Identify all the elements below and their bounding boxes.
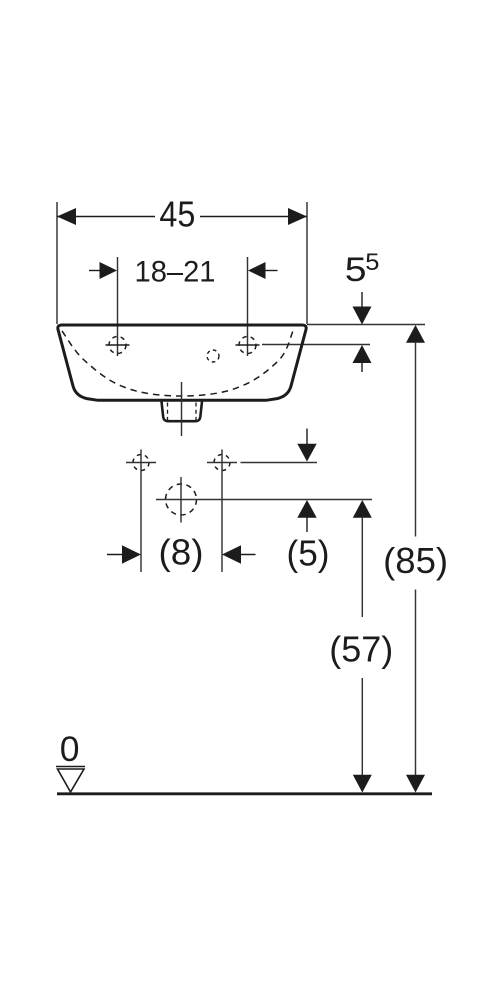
- dim 45 arrow right: [288, 208, 307, 225]
- waste pipe v centre line: [180, 477, 182, 523]
- svg-text:5: 5: [365, 249, 379, 276]
- dim (57) bottom arrow: [353, 775, 372, 793]
- drain centre line: [181, 382, 183, 436]
- dim 18-21 right tail: [264, 270, 278, 272]
- dim (85) top arrow: [406, 325, 425, 343]
- reference line waste level: [156, 499, 372, 501]
- svg-text:0: 0: [60, 729, 80, 769]
- dim (85) bottom arrow: [406, 775, 425, 793]
- dim 45 arrow left: [57, 208, 76, 225]
- dim 18-21 extension line left: [117, 257, 119, 356]
- reference line fixing level: [241, 462, 318, 464]
- svg-text:5: 5: [345, 251, 367, 289]
- svg-text:18–21: 18–21: [135, 256, 216, 289]
- drain spout inner dashed right: [195, 403, 197, 421]
- tap hole right cross bar: [236, 344, 260, 346]
- dim 5 top arrow shaft: [361, 292, 363, 308]
- dim (57) shaft lower: [361, 678, 363, 776]
- fixing hole right v-line + (8) extension: [221, 450, 223, 573]
- dim (8) right tail: [239, 554, 256, 556]
- svg-text:(5): (5): [287, 533, 330, 574]
- svg-text:45: 45: [159, 194, 195, 235]
- fixing hole right circle: [214, 455, 230, 471]
- dim 45 line: [57, 216, 155, 218]
- basin bowl dashed curve: [62, 331, 293, 396]
- overflow hole dashed circle: [207, 350, 219, 362]
- dim 45 extension line left: [56, 202, 58, 324]
- svg-text:(8): (8): [159, 532, 204, 573]
- dim 5 bottom arrow shaft: [361, 362, 363, 372]
- reference line rim level: [307, 324, 425, 326]
- fixing hole left circle: [133, 455, 149, 471]
- drain spout inner dashed left: [167, 403, 169, 421]
- tap hole left circle: [109, 337, 126, 354]
- dim 18-21 extension line right: [247, 257, 249, 356]
- dim 18-21 arrow left: [100, 262, 118, 279]
- dim (5) bottom arrow shaft: [306, 517, 308, 532]
- dim 18-21 left tail: [89, 270, 101, 272]
- drain spout outline: [162, 402, 203, 422]
- tap hole right circle: [239, 337, 256, 354]
- svg-text:(57): (57): [329, 629, 393, 670]
- datum triangle: [58, 769, 85, 792]
- dim 5 bottom arrow: [353, 345, 372, 363]
- dim (57) top arrow: [353, 500, 372, 518]
- dim (8) left tail: [107, 554, 124, 556]
- dim (85) shaft upper: [415, 342, 417, 537]
- dim (8) arrow right: [222, 545, 241, 563]
- dim (5) bottom arrow: [297, 500, 316, 518]
- fixing hole left v-line + (8) extension: [140, 450, 142, 573]
- dim 45 extension line right: [306, 202, 308, 324]
- floor line: [57, 792, 432, 795]
- svg-text:(85): (85): [383, 540, 448, 581]
- fixing hole left h-bar: [126, 462, 156, 464]
- dim (57) shaft upper: [361, 517, 363, 617]
- waste pipe dashed circle: [166, 484, 197, 515]
- basin outline: [58, 325, 306, 400]
- fixing hole right h-bar: [207, 462, 237, 464]
- tap hole left cross bar: [106, 344, 130, 346]
- dim (5) top arrow shaft: [306, 429, 308, 446]
- dim (85) shaft lower: [415, 590, 417, 777]
- dim (8) arrow left: [122, 545, 141, 563]
- dim 5 top arrow: [353, 307, 372, 325]
- reference line tap level: [262, 344, 370, 346]
- dim 18-21 arrow right: [248, 262, 266, 279]
- datum underline: [56, 766, 85, 768]
- dim (5) top arrow: [297, 444, 316, 462]
